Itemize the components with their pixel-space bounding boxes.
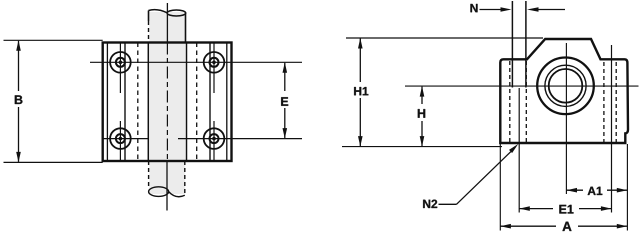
- label E1: [559, 205, 573, 214]
- N2 leader horizontal: [439, 203, 457, 205]
- hole column center line bottom-left: [119, 121, 121, 161]
- dimension A1 right arrow: [617, 188, 628, 193]
- dimension E arrow up: [283, 62, 288, 73]
- right bolt hole hidden left dashed: [603, 62, 605, 143]
- dimension B line: [18, 41, 20, 162]
- shaft upper portion: [149, 3, 186, 43]
- N2 leader diagonal: [457, 150, 513, 204]
- label H: [418, 109, 425, 118]
- dimension A right arrow: [617, 224, 628, 229]
- bore vertical center line: [565, 43, 567, 194]
- N2 arrowhead: [509, 144, 518, 153]
- dimension H1 extension top: [346, 37, 543, 39]
- label A1: [588, 187, 603, 195]
- bore horizontal center line: [405, 85, 639, 87]
- dimension H1 arrow up: [358, 38, 363, 49]
- block outline: [500, 39, 628, 143]
- bearing ring circle: [545, 65, 586, 106]
- dimension B extension bottom: [4, 161, 103, 163]
- bolt hole top-left: [110, 52, 131, 73]
- plate left rib line: [124, 43, 126, 162]
- dimension H1 line: [359, 39, 361, 147]
- bolt hole bottom-left: [110, 128, 131, 149]
- bolt hole bottom-right: [204, 128, 225, 149]
- bottom holes center line right segment: [178, 138, 302, 140]
- left bolt hole center line: [518, 88, 520, 213]
- hole column center line top-left: [119, 43, 121, 94]
- dimension N left arrow: [501, 7, 512, 12]
- dimension H arrow up: [420, 86, 425, 97]
- plate inner left line: [106, 43, 108, 162]
- shaft lower portion: [149, 161, 185, 211]
- label N2: [423, 200, 437, 208]
- shaft bottom break curve: [169, 192, 185, 197]
- shaft center line in plate: [166, 43, 168, 162]
- hole column center line bottom-right: [213, 121, 215, 161]
- shaft right edge lower dashed: [184, 161, 186, 195]
- plate hidden line right dashed: [196, 43, 198, 162]
- label N: [470, 4, 477, 12]
- dimension B extension top: [4, 39, 103, 41]
- dimension A line: [500, 225, 627, 227]
- label B: [15, 95, 23, 104]
- dimension N right arrow: [527, 7, 539, 12]
- shaft left edge upper solid: [148, 11, 150, 22]
- slot right line upper: [525, 1, 527, 88]
- dimension A1 left arrow: [566, 188, 577, 193]
- dimension H1 arrow down: [358, 136, 363, 147]
- shaft left edge upper dashed: [148, 21, 150, 43]
- plate outline: [103, 43, 232, 162]
- dimension N right line: [539, 9, 566, 11]
- dimension A left arrow: [500, 224, 511, 229]
- shaft light tint: [149, 12, 185, 194]
- dimension H arrow down: [420, 136, 425, 147]
- right bolt hole hidden right dashed: [615, 62, 617, 143]
- extension line left edge down: [499, 144, 501, 231]
- bolt hole top-right: [204, 52, 225, 73]
- dimension E1 right arrow: [601, 206, 612, 211]
- slot left line upper: [511, 1, 513, 88]
- extension line right edge down: [626, 144, 628, 231]
- bore outer circle: [537, 58, 594, 115]
- dimension B arrow down: [16, 152, 21, 163]
- right bolt hole center line: [611, 45, 613, 213]
- dimension E line: [284, 63, 286, 138]
- shaft center line upper: [166, 3, 168, 43]
- plate right rib line: [209, 43, 211, 162]
- slot right hidden dashed: [525, 61, 527, 143]
- label A: [562, 222, 571, 231]
- plate inner right line: [226, 43, 228, 162]
- dimension B arrow up: [16, 40, 21, 51]
- bottom holes center line left segment: [103, 138, 149, 140]
- bottom extension line: [342, 146, 502, 148]
- label E: [281, 97, 288, 106]
- dimension E1 left arrow: [519, 206, 530, 211]
- slot left hidden dashed: [509, 61, 511, 143]
- dimension H line: [421, 87, 423, 146]
- dimension E arrow down: [283, 128, 288, 139]
- bore edge left in plate: [147, 43, 149, 162]
- shaft top break curve: [149, 10, 168, 13]
- shaft left edge lower dashed: [148, 161, 150, 187]
- shaft center line lower: [166, 161, 168, 211]
- shaft bottom break ellipse: [149, 187, 169, 197]
- top holes center line: [90, 61, 302, 63]
- shaft circle: [549, 69, 583, 103]
- dimension A1 line: [566, 189, 627, 191]
- shaft right edge upper: [185, 13, 187, 43]
- dimension E1 line: [519, 208, 611, 210]
- dimension N left line: [480, 9, 501, 11]
- shaft top break ellipse: [167, 10, 186, 16]
- label H1: [354, 87, 368, 95]
- plate hidden line left dashed: [137, 43, 139, 162]
- bore edge right in plate: [186, 43, 188, 162]
- hole column center line top-right: [213, 43, 215, 94]
